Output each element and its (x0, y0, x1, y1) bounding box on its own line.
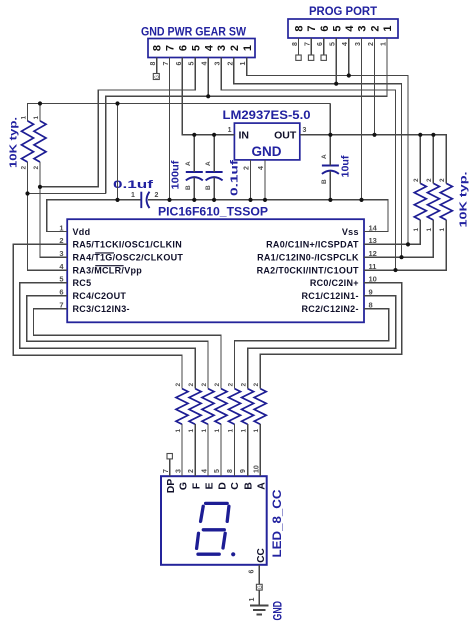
svg-text:5: 5 (214, 469, 221, 473)
wire: net PWR raw input (J1.6, U2.IN, C2, C3) (182, 58, 234, 135)
junction R2 bottom / SW (38, 185, 42, 189)
svg-text:7: 7 (165, 45, 177, 51)
svg-text:A: A (321, 154, 328, 159)
wire: net segC (U1.8 RC2 to R10) (235, 309, 389, 389)
svg-text:6: 6 (319, 25, 331, 31)
svg-text:9: 9 (240, 469, 247, 473)
svg-text:3: 3 (303, 127, 307, 134)
wire J1 pin 4 drop (207, 58, 209, 97)
wire U2 pin 2 to GND bus (250, 160, 252, 200)
DS1 segment A (top) (206, 502, 228, 505)
junction ICSPDAT on U1 pin 13 row (406, 242, 410, 246)
svg-text:2: 2 (20, 166, 27, 170)
svg-text:2: 2 (188, 383, 195, 387)
wire segment resistor to DS1 pin (247, 424, 249, 476)
wire: net segA (U1.10 RC0 to R12) (260, 283, 401, 389)
resistor R3 10K (414, 183, 426, 220)
wire C4 bottom (329, 171, 331, 200)
svg-text:1: 1 (249, 598, 256, 602)
junction U2.4 on GND bus (263, 198, 267, 202)
wire +5V top rail to R1 (28, 104, 331, 121)
DS1 segment C (lower right) (223, 533, 225, 548)
resistor R4 10K (427, 183, 439, 220)
svg-text:GND: GND (252, 143, 282, 159)
wire: net MCLR/Vpp (J2.1, J1.4, R1, U1.4) (106, 38, 387, 194)
wire segment resistor to DS1 pin (207, 424, 209, 476)
svg-text:RA2/T0CKI/INT/C1OUT: RA2/T0CKI/INT/C1OUT (257, 265, 359, 275)
svg-text:2: 2 (188, 469, 195, 473)
DS1 segment G (middle) (203, 528, 224, 531)
capacitor C3 0.1uf (206, 171, 223, 173)
svg-text:3: 3 (216, 45, 228, 51)
svg-text:1: 1 (413, 228, 420, 232)
wire J1 pin 7 drop to GND bus (169, 58, 171, 200)
svg-text:2: 2 (229, 45, 241, 51)
svg-text:RC1/C12IN1-: RC1/C12IN1- (301, 291, 358, 301)
capacitor C4 10uf (322, 165, 339, 167)
svg-text:4: 4 (203, 44, 215, 51)
wire R4 top (432, 135, 434, 184)
svg-text:DP: DP (165, 479, 177, 494)
wire R2 bottom to U1 pin 3 (40, 162, 67, 257)
svg-text:RC3/C12IN3-: RC3/C12IN3- (73, 304, 130, 314)
wire segment resistor to DS1 pin (259, 424, 261, 476)
svg-text:8: 8 (152, 45, 164, 51)
junction J2.4 on ICSPDAT net (347, 73, 351, 77)
resistor R8 segment (202, 389, 214, 425)
svg-text:LED_8_CC: LED_8_CC (272, 490, 284, 558)
svg-text:1: 1 (240, 429, 247, 433)
resistor R11 segment (242, 389, 254, 425)
junction C2 top on IN line (192, 133, 196, 137)
svg-text:5: 5 (331, 25, 343, 31)
junction R3 top on +5V line (418, 133, 422, 137)
svg-text:2: 2 (253, 383, 260, 387)
DS1 segment D (bottom) (198, 553, 219, 556)
svg-text:6: 6 (249, 570, 256, 574)
junction J1.4 on MCLR net (206, 94, 210, 98)
svg-text:B: B (185, 185, 192, 190)
wire: net GEAR (J1.3, U1.11, R5) (221, 58, 395, 271)
wire J2 pin 5 drop (335, 38, 337, 84)
wire J2 pin 2 drop to +5V (374, 38, 376, 135)
svg-text:F: F (190, 482, 202, 489)
resistor R10 segment (229, 389, 241, 425)
svg-text:5: 5 (190, 45, 202, 51)
svg-text:RC2/C12IN2-: RC2/C12IN2- (301, 304, 358, 314)
junction J1.7 on GND bus (167, 198, 171, 202)
svg-text:G: G (178, 482, 190, 490)
svg-text:2: 2 (244, 166, 251, 170)
resistor R12 segment (254, 389, 266, 425)
svg-text:1: 1 (188, 429, 195, 433)
wire: net segG (U1.2 RA5 to R6) (13, 244, 182, 388)
svg-text:PIC16F610_TSSOP: PIC16F610_TSSOP (158, 207, 268, 219)
overline T1G on U1 pin 3 name (95, 252, 114, 254)
svg-text:RA4/T1G/OSC2/CLKOUT: RA4/T1G/OSC2/CLKOUT (73, 253, 184, 263)
svg-text:1: 1 (227, 429, 234, 433)
svg-text:1: 1 (253, 429, 260, 433)
junction R1 bottom / MCLR (25, 191, 29, 195)
svg-text:10K typ.: 10K typ. (8, 117, 20, 168)
wire C2 bottom (193, 177, 195, 200)
svg-text:1: 1 (426, 228, 433, 232)
display DS1 LED_8_CC (161, 476, 267, 565)
junction J2.5 on ICSPCLK net (334, 82, 338, 86)
wire: net segE (U1.6 RC4 to R8) (27, 296, 208, 389)
resistor R1 10K (22, 121, 34, 162)
svg-text:D: D (216, 482, 228, 490)
wire rail riser to Vdd bus (117, 104, 119, 200)
junction R2 top on +5V rail (38, 101, 42, 105)
wire J2 pin 6 stub (323, 38, 325, 55)
no-connect square J2 pin 8 (296, 55, 301, 60)
junction U2.2 on GND bus (248, 198, 252, 202)
wire: net Vdd (U1.1, C1.1, +5V riser) (47, 200, 141, 232)
junction riser on Vdd bus (115, 198, 119, 202)
svg-text:6: 6 (178, 45, 190, 51)
svg-text:RA0/C1IN+/ICSPDAT: RA0/C1IN+/ICSPDAT (266, 240, 359, 250)
wire J2 pin 4 drop (348, 38, 350, 76)
junction C3 on GND bus (212, 198, 216, 202)
svg-text:1: 1 (214, 429, 221, 433)
svg-text:1: 1 (33, 116, 40, 120)
svg-text:2: 2 (370, 25, 382, 31)
ground marker G under J1 pin 8 (153, 74, 159, 80)
svg-text:2: 2 (227, 383, 234, 387)
wire R1 bottom to U1 pin 4 (28, 162, 68, 270)
svg-text:LM2937ES-5.0: LM2937ES-5.0 (223, 110, 311, 122)
junction C4 / riser on +5V line (328, 133, 332, 137)
no-connect square J2 pin 6 (321, 55, 326, 60)
svg-text:RC5: RC5 (73, 278, 92, 288)
svg-text:RA3/MCLR/Vpp: RA3/MCLR/Vpp (73, 265, 143, 275)
svg-text:0.1uf: 0.1uf (229, 159, 241, 196)
junction J2.3 on GND bus (359, 198, 363, 202)
svg-text:1: 1 (20, 116, 27, 120)
wire J2 pin 3 drop to GND bus (361, 38, 363, 200)
svg-text:100uf: 100uf (170, 160, 182, 190)
svg-text:GND: GND (271, 601, 285, 621)
svg-text:RA1/C12IN0-/ICSPCLK: RA1/C12IN0-/ICSPCLK (257, 253, 359, 263)
IC U1 PIC16F610_TSSOP (67, 219, 364, 322)
svg-text:OUT: OUT (274, 129, 297, 141)
svg-text:GND PWR GEAR SW: GND PWR GEAR SW (141, 27, 246, 39)
svg-text:7: 7 (163, 469, 170, 473)
svg-text:7: 7 (306, 25, 318, 31)
wire J2 pin 8 stub (298, 38, 300, 55)
junction +5V riser on rail (115, 101, 119, 105)
wire J2 pin 7 stub (310, 38, 312, 55)
no-connect square J2 pin 7 (308, 55, 313, 60)
wire U2 pin 4 to GND bus (264, 160, 266, 200)
svg-text:PROG PORT: PROG PORT (309, 6, 377, 18)
wire +5V riser to top rail (329, 104, 331, 135)
junction GEAR on U1 pin 11 row (393, 268, 397, 272)
svg-text:2: 2 (426, 178, 433, 182)
svg-text:0.1uf: 0.1uf (113, 179, 154, 191)
svg-text:1: 1 (131, 192, 135, 199)
svg-text:3: 3 (357, 25, 369, 31)
DS1 segment F (upper left) (201, 506, 204, 521)
resistor R2 10K (34, 121, 46, 162)
junction C3 top on IN line (212, 133, 216, 137)
svg-text:2: 2 (413, 178, 420, 182)
junction ICSPCLK on U1 pin 12 row (399, 255, 403, 259)
svg-text:10uf: 10uf (340, 155, 352, 178)
svg-text:A: A (205, 161, 212, 166)
svg-text:1: 1 (201, 429, 208, 433)
svg-text:2: 2 (240, 383, 247, 387)
overline MCLR on U1 pin 4 name (95, 265, 123, 267)
svg-text:A: A (256, 482, 268, 490)
wire segment resistor to DS1 pin (181, 424, 183, 476)
svg-text:RC4/C2OUT: RC4/C2OUT (73, 291, 127, 301)
DS1 segment E (lower left) (197, 533, 199, 548)
svg-text:B: B (205, 185, 212, 190)
junction C2 on GND bus (192, 198, 196, 202)
svg-text:10: 10 (253, 465, 260, 473)
regulator U2 LM2937ES-5.0 (234, 123, 299, 160)
wire MCLR to R1 bottom (28, 193, 106, 195)
capacitor C2 100uf (186, 171, 203, 173)
resistor R9 segment (215, 389, 227, 425)
svg-text:B: B (321, 179, 328, 184)
svg-text:1: 1 (439, 228, 446, 232)
wire R4 bottom to U1 pin 12 row (364, 220, 433, 257)
svg-text:RC0/C2IN+: RC0/C2IN+ (310, 278, 359, 288)
svg-text:8: 8 (294, 25, 306, 31)
wire: net ICSPCLK (J1.2, J2.5, U1.12, R4) (234, 58, 402, 258)
svg-text:G: G (257, 585, 263, 589)
wire C3 top (213, 135, 215, 172)
wire: net segB (U1.9 RC1 to R11) (248, 296, 396, 389)
connector J2 PROG PORT (288, 19, 398, 38)
wire C2 top (193, 135, 195, 172)
wire: net segF (U1.5 RC5 to R7) (20, 283, 195, 389)
svg-text:2: 2 (214, 383, 221, 387)
DS1 DP no-connect stub (169, 459, 171, 476)
svg-text:4: 4 (344, 25, 356, 32)
DS1 decimal point (231, 552, 235, 556)
svg-text:8: 8 (227, 469, 234, 473)
svg-text:B: B (242, 482, 254, 490)
wire: net ICSPDAT (J1.1, J2.4, U1.13, R3) (247, 58, 408, 245)
ground symbol GND (250, 606, 269, 615)
svg-text:Vdd: Vdd (73, 227, 91, 237)
svg-text:2: 2 (175, 383, 182, 387)
wire J1 pin 8 to ground marker (156, 58, 158, 74)
capacitor C1 0.1uf (horizontal) (140, 192, 142, 208)
svg-text:2: 2 (33, 166, 40, 170)
ground net marker square on CC wire (256, 584, 262, 590)
resistor R6 segment (176, 389, 188, 425)
wire marker to ground symbol (258, 590, 260, 605)
wire: net segD (U1.7 RC3 to R9) (34, 309, 222, 389)
wire: net CC (DS1.6 to ground) (258, 565, 260, 585)
junction J2.2 on +5V line (372, 133, 376, 137)
wire C4 top (329, 135, 331, 166)
DS1 segment B (upper right) (227, 506, 229, 521)
wire R3 bottom to U1 pin 13 row (364, 220, 420, 244)
wire: net +5V (U2.OUT, C4, rail, J2.2, R3 R4 R5 tops) (300, 135, 447, 184)
wire GND bus to U1 Vss (148, 200, 388, 232)
junction R4 top on +5V line (431, 133, 435, 137)
svg-text:Vss: Vss (342, 227, 359, 237)
svg-text:2: 2 (155, 192, 159, 199)
svg-text:CC: CC (256, 548, 267, 562)
svg-text:IN: IN (239, 129, 250, 141)
resistor R7 segment (189, 389, 201, 425)
svg-text:1: 1 (175, 429, 182, 433)
wire rail to R2 top (39, 104, 41, 121)
junction C4 on GND bus (328, 198, 332, 202)
svg-text:1: 1 (382, 25, 394, 31)
svg-text:C: C (229, 482, 241, 490)
wire segment resistor to DS1 pin (220, 424, 222, 476)
wire R5 bottom to U1 pin 11 row (364, 220, 446, 270)
wire: net SW (J1.5, R2, U1.3) (40, 58, 195, 187)
connector J1 GND PWR GEAR SW (148, 39, 255, 58)
svg-text:E: E (204, 482, 216, 489)
wire segment resistor to DS1 pin (234, 424, 236, 476)
svg-text:1: 1 (242, 45, 254, 51)
svg-text:1: 1 (228, 127, 232, 134)
svg-text:2: 2 (201, 383, 208, 387)
wire segment resistor to DS1 pin (194, 424, 196, 476)
resistor R5 10K (440, 183, 452, 220)
wire R3 top (419, 135, 421, 184)
svg-text:G: G (155, 75, 161, 79)
svg-text:RA5/T1CKI/OSC1/CLKIN: RA5/T1CKI/OSC1/CLKIN (73, 240, 183, 250)
svg-text:A: A (185, 161, 192, 166)
wire C3 bottom (213, 177, 215, 200)
svg-text:2: 2 (439, 178, 446, 182)
svg-text:10K typ.: 10K typ. (458, 171, 470, 227)
no-connect square DS1 pin 7 DP (167, 454, 172, 459)
svg-text:4: 4 (258, 166, 265, 170)
